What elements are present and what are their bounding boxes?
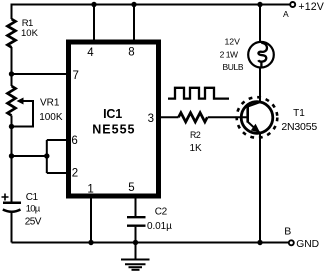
wire top rail xyxy=(12,4,291,6)
transistor T1 2N3055 xyxy=(241,102,273,134)
svg-text:1: 1 xyxy=(87,183,93,195)
wire pin 7 lead xyxy=(12,73,69,75)
wire left rail top segment xyxy=(11,4,13,20)
wire pins 6-2 connector xyxy=(12,140,69,173)
wire pin 1 to bottom rail xyxy=(90,198,92,243)
svg-text:BULB: BULB xyxy=(222,62,243,72)
svg-text:B: B xyxy=(284,225,291,237)
wire emitter to bottom rail xyxy=(259,133,261,243)
waveform symbol xyxy=(168,88,229,99)
svg-text:2: 2 xyxy=(72,168,78,180)
resistor R1 xyxy=(8,19,16,47)
svg-text:8: 8 xyxy=(128,46,134,58)
svg-text:0.01µ: 0.01µ xyxy=(147,221,172,232)
node junction bracket xyxy=(44,153,49,158)
pin 4 xyxy=(93,5,95,42)
svg-text:C2: C2 xyxy=(155,207,168,218)
svg-text:IC1: IC1 xyxy=(103,107,122,121)
svg-text:25V: 25V xyxy=(25,217,42,228)
resistor R2 xyxy=(179,113,208,122)
svg-text:2N3055: 2N3055 xyxy=(281,121,317,133)
lamp 12V 2.1W bulb xyxy=(248,42,274,68)
node junction pin7 xyxy=(9,71,14,76)
wire collector feed xyxy=(259,5,261,43)
svg-text:12V: 12V xyxy=(224,36,240,46)
capacitor C1 xyxy=(3,201,21,204)
svg-text:VR1: VR1 xyxy=(40,97,60,108)
wire bottom rail xyxy=(12,242,290,244)
op-amp IC1 NE555 box xyxy=(69,42,159,196)
wire left rail R1 to VR1 xyxy=(11,47,13,86)
wire bulb to transistor xyxy=(259,67,261,102)
potentiometer VR1 xyxy=(8,86,16,116)
svg-text:10K: 10K xyxy=(21,28,39,39)
svg-text:A: A xyxy=(283,9,289,19)
svg-text:100K: 100K xyxy=(39,112,63,123)
ground xyxy=(135,243,137,260)
svg-text:10µ: 10µ xyxy=(26,204,41,215)
svg-text:1K: 1K xyxy=(190,143,203,154)
svg-text:2 1W: 2 1W xyxy=(220,49,238,59)
node A terminal xyxy=(290,2,295,7)
node junction VR1 wiper xyxy=(9,124,14,129)
svg-text:NE555: NE555 xyxy=(92,123,135,137)
capacitor C2 xyxy=(135,198,137,216)
wire left rail VR1 to C1 xyxy=(11,116,13,202)
svg-text:GND: GND xyxy=(296,239,319,250)
node B terminal xyxy=(289,240,294,245)
svg-text:T1: T1 xyxy=(293,108,305,119)
svg-text:6: 6 xyxy=(71,135,77,147)
svg-text:3: 3 xyxy=(148,113,154,125)
wire left rail C1 to bottom xyxy=(11,211,13,243)
svg-text:C1: C1 xyxy=(26,192,39,203)
svg-text:4: 4 xyxy=(87,47,94,59)
node junction rail-connector xyxy=(9,153,14,158)
svg-text:5: 5 xyxy=(128,182,134,194)
pin 8 xyxy=(133,5,135,42)
svg-text:R2: R2 xyxy=(190,130,201,140)
svg-text:+12V: +12V xyxy=(298,1,324,13)
svg-text:7: 7 xyxy=(72,70,78,82)
wire pin 3 lead xyxy=(159,116,179,118)
